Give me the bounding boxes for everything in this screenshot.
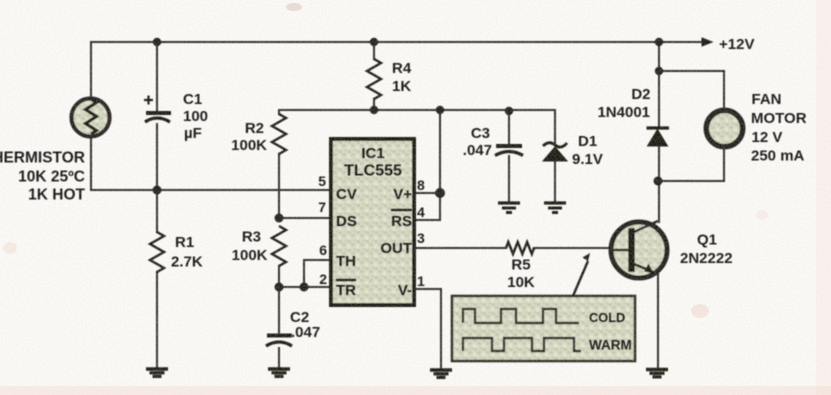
ground C3 <box>498 203 520 213</box>
wire thermistor bottom lead to divider node <box>91 137 331 190</box>
wire Q1 emitter to ground <box>657 274 659 369</box>
wire R5 to Q1 base <box>534 247 630 249</box>
wire C3 top lead <box>508 110 510 144</box>
waveform cold trace <box>463 309 579 323</box>
ground Q1 emitter <box>646 370 668 377</box>
wire pin 4 RS stub <box>414 219 440 221</box>
wire R4 leads <box>373 42 375 110</box>
ground D1 <box>544 203 566 213</box>
wire C2 top lead <box>278 287 280 333</box>
wire R2 top corner to D1 horizontal bus <box>279 110 555 114</box>
capacitor C3 <box>495 146 523 156</box>
wire R2 bottom lead crossing pin5 wire <box>278 154 280 218</box>
wire C1 bottom lead <box>156 124 158 190</box>
node top rail R4 <box>370 38 378 46</box>
node pin8 riser <box>435 188 445 198</box>
node C3 bus <box>505 107 513 115</box>
node divider junction C1 R1 CV <box>153 186 162 195</box>
wire motor bottom branch <box>659 150 724 181</box>
wire C3 bottom lead <box>508 156 510 202</box>
resistor R4 <box>367 59 381 99</box>
IC U1 TLC555 body <box>331 139 414 305</box>
node R2 R3 DS <box>275 214 284 223</box>
wire pin 1 V- to ground <box>414 289 441 369</box>
node D2 motor top <box>655 67 663 75</box>
transistor Q1 <box>610 221 667 278</box>
node top rail C1 <box>153 38 161 46</box>
ground C2 <box>268 369 290 376</box>
ground pin1 <box>430 370 452 377</box>
waveform legend box <box>452 296 635 361</box>
wire D1 bottom lead <box>554 161 556 202</box>
wire pin 7 DS <box>279 217 331 219</box>
resistor R1 <box>150 232 164 272</box>
diode D2 <box>647 128 670 146</box>
wire D2 bottom lead <box>658 146 660 181</box>
resistor R5 <box>506 242 534 254</box>
waveform warm trace <box>463 338 581 351</box>
wire C1 R1 vertical top <box>156 42 158 111</box>
wire thermistor top lead <box>90 42 92 99</box>
fan motor M1 <box>706 110 742 146</box>
pin label RS <box>391 210 412 230</box>
wire pin 8 V+ stub <box>414 192 440 194</box>
wire +12V branch to D2 <box>658 42 660 128</box>
node D2 motor bottom <box>654 177 663 186</box>
capacitor C2 <box>266 336 292 347</box>
wire R3 bottom lead <box>278 266 280 287</box>
resistor R2 <box>272 114 286 154</box>
capacitor C1 <box>144 96 171 123</box>
node top rail D2 branch <box>655 38 663 46</box>
pin label TR <box>336 280 356 299</box>
node R3 C2 <box>275 283 284 292</box>
arrow waveform callout <box>573 253 590 296</box>
node V+ riser bus <box>436 106 444 114</box>
wire R1 leads <box>156 190 158 368</box>
ground R1 <box>146 369 168 376</box>
wire pin 6 TH jumper <box>304 260 331 287</box>
wire D2 node to Q1 collector <box>658 181 660 222</box>
resistor R3 <box>272 226 286 266</box>
wire +12V top rail <box>91 41 703 43</box>
wire C2 bottom lead <box>278 348 280 368</box>
node R4 bottom bus <box>370 106 378 114</box>
wire pin 2 TR <box>279 286 331 288</box>
wire pin 3 OUT to R5 <box>414 247 506 249</box>
wire motor top branch <box>659 71 724 108</box>
wire V+ riser pin8 pin4 <box>439 110 441 220</box>
zener diode D1 <box>543 143 567 161</box>
node TH TR tie <box>300 283 309 292</box>
thermistor RT1 body <box>72 99 110 137</box>
wire D1 top lead <box>554 110 556 143</box>
arrow +12V rail <box>702 37 714 47</box>
